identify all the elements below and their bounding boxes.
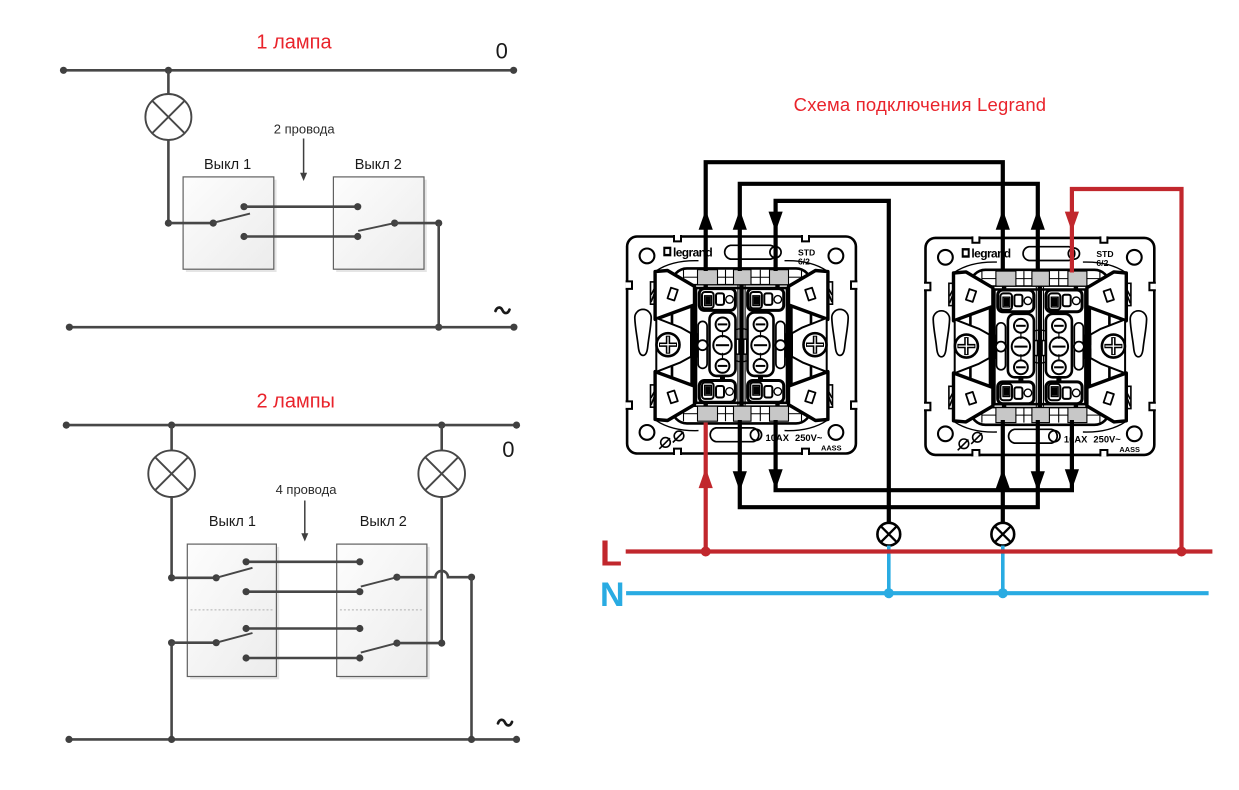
wire SW2 upper pivot to right riser (hops over lamp2 wire) [397,571,472,577]
svg-text:N: N [600,576,625,614]
SW2 lower lever [361,643,397,653]
wire SW2 lower pivot to lamp2 wire [397,642,442,645]
node: right end of top bus [510,67,517,74]
label ~ phase [496,308,510,314]
wire: phase bottom bus [69,738,517,741]
node on N (lamp2) [998,588,1008,598]
node SW2 contact B [354,233,361,240]
svg-text:L: L [600,533,622,574]
node SW2 lower pivot [393,640,400,647]
svg-text:0: 0 [496,39,508,64]
switch box Выкл 2 [340,547,430,679]
SW2 upper lever [361,577,397,586]
blue stub lamp1 to N [887,546,891,594]
wire: neutral top bus [64,69,514,72]
SW2 lever [358,223,394,231]
red arrow into U2 top [1065,212,1079,232]
lamp HL1 [145,94,191,140]
crossover wire B [244,235,358,238]
blue stub lamp2 to N [1001,546,1005,594]
wire lamp2 down to SW2 lower pivot [440,497,443,643]
lamp HL1 [148,450,195,497]
switch mechanism U2 (right) [924,236,1156,456]
wire bus to lamp2 [440,425,443,451]
SW1 upper lever [216,568,252,578]
red wire: U2 t3 top to L riser [1072,189,1182,552]
node corner [435,220,442,227]
svg-text:Выкл 2: Выкл 2 [360,514,407,530]
svg-text:2 провода: 2 провода [274,122,336,137]
crossover wire B [246,590,360,593]
wire E: U1 t2 bottom to U2 t2 bottom [740,420,1038,507]
lamp HL2 (right diagram) [991,523,1014,546]
switch mechanism U1 (left) [626,235,858,455]
wire: neutral top bus [66,424,516,427]
node SW1 input [165,220,172,227]
svg-text:Выкл 1: Выкл 1 [209,514,256,530]
svg-text:2 лампы: 2 лампы [256,391,334,413]
node SW1 contact A [240,203,247,210]
SW1 upper input node [168,574,175,581]
wire lamp1 down to SW1 upper input [170,497,173,578]
SW1 lower lever [216,633,252,643]
crossover wire A [246,560,360,563]
switch box Выкл 2 [336,180,427,272]
node SW2 pivot [391,220,398,227]
svg-text:Выкл 2: Выкл 2 [355,157,402,173]
node SW1 pivot [210,220,217,227]
crossover wire D [246,657,360,660]
dashed separator box2 [340,609,423,611]
wire to SW1 lower pivot [172,641,217,644]
wire right riser down to phase bus [470,577,473,739]
lamp HL2 [418,450,465,497]
node on N (lamp1) [884,588,894,598]
wire: lamp to switch 1 [167,140,170,223]
wire SW2 output [395,222,439,225]
wire D: U1 t3 bottom to U2 t3 bottom [776,420,1072,490]
red wire: L to U1 t1 bottom [704,423,708,552]
wire to SW1 upper pivot [172,576,217,579]
node: lamp2 junction [438,422,445,429]
SW1 lower input node [168,639,175,646]
wire bus to lamp1 [170,425,173,451]
node on L (U1 feed) [701,547,711,557]
svg-text:Схема подключения Legrand: Схема подключения Legrand [794,94,1047,115]
N line [626,591,1209,595]
dashed separator box1 [191,609,274,611]
wire down to phase bus [437,223,440,327]
arrows on U2 top wires [996,210,1010,230]
node on L (right riser) [1177,547,1187,557]
svg-text:1 лампа: 1 лампа [256,32,332,54]
svg-text:4 провода: 4 провода [276,482,338,497]
crossover wire C [246,627,360,630]
wire SW1 lower input down to phase bus [170,643,173,740]
label ~ phase [498,720,512,726]
SW1 lever [213,214,250,223]
wire: phase bottom bus [69,326,514,329]
node SW1 contact B [240,233,247,240]
node SW2 contact A [354,203,361,210]
node: left end of top bus [60,67,67,74]
L line [626,549,1213,553]
red arrow into U1 bottom [699,468,713,488]
crossover wire A [244,205,358,208]
wire bus A: U1 t1 top to U2 t1 top [706,162,1003,271]
lamp HL1 (right diagram) [877,523,900,546]
arrows on U2 bottom wires [996,469,1010,489]
wire: bus to lamp [167,70,170,94]
svg-text:0: 0 [502,437,514,462]
switch box Выкл 1 [186,180,277,272]
wire bus C: U1 t3 top to lamp1 [776,201,889,523]
node SW2 upper pivot [393,574,400,581]
node: lamp junction on top bus [165,67,172,74]
arrows on U1 bottom wires [733,471,747,491]
node: lamp1 junction [168,422,175,429]
wire bus B: U1 t2 top to U2 t2 top [740,184,1038,271]
switch box Выкл 1 [190,547,279,679]
arrow pointer [304,501,306,536]
arrow pointer to crossover wires [303,139,305,175]
svg-text:Выкл 1: Выкл 1 [204,157,251,173]
arrows on U1 top wires [699,210,713,230]
node on phase bus [435,324,442,331]
wire: U2 t1 bottom to lamp2 [1001,420,1005,523]
wire to SW1 pivot [168,222,213,225]
